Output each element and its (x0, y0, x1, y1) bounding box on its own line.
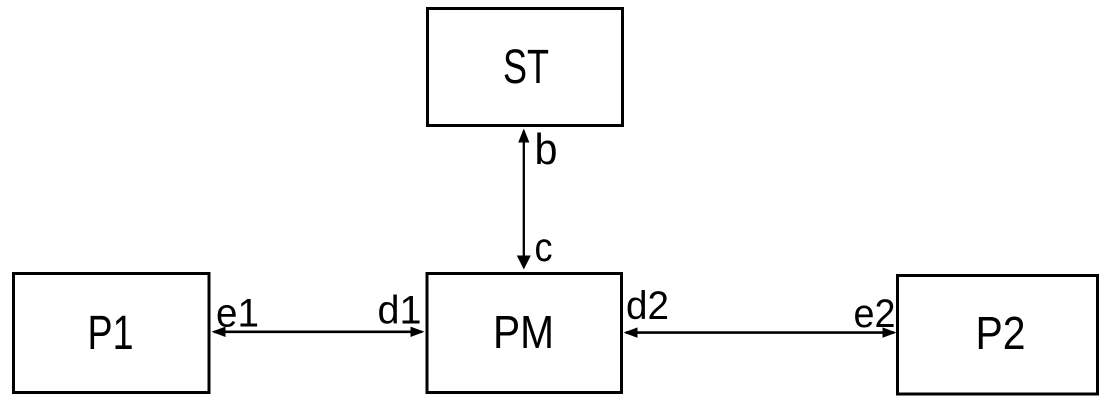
svg-text:P2: P2 (976, 307, 1026, 359)
arrowhead left at P1 (212, 327, 226, 337)
arrowhead right at P2 (883, 327, 897, 337)
block ST (428, 9, 623, 126)
arrowhead down at PM (517, 256, 531, 270)
svg-text:d2: d2 (626, 284, 669, 328)
wire P1-PM horizontal double arrow (214, 330, 422, 333)
svg-text:c: c (535, 224, 553, 270)
svg-text:e1: e1 (216, 292, 259, 336)
svg-text:d1: d1 (378, 289, 422, 333)
arrowhead right at PM (411, 327, 425, 337)
svg-text:e2: e2 (854, 292, 896, 336)
svg-text:b: b (535, 125, 558, 174)
svg-text:P1: P1 (88, 307, 134, 360)
arrowhead up at ST (518, 129, 529, 143)
svg-text:ST: ST (503, 41, 549, 94)
block P1 (14, 274, 210, 393)
wire PM-P2 horizontal double arrow (626, 331, 894, 334)
svg-text:PM: PM (493, 306, 554, 358)
wire ST-PM vertical double arrow (523, 131, 525, 267)
block P2 (898, 276, 1098, 395)
block PM (427, 274, 622, 393)
arrowhead left at PM (624, 327, 638, 337)
